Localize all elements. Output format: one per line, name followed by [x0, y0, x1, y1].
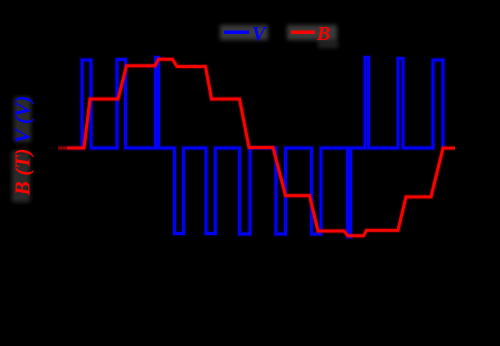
svg-text:B: B: [316, 23, 330, 45]
legend V sample line: [224, 30, 249, 34]
V curve glow: [58, 58, 443, 238]
svg-text:V: V: [252, 23, 267, 45]
legend B sample line: [291, 30, 315, 34]
B curve (red staircase): [58, 59, 455, 236]
svg-text:V (V): V (V): [11, 96, 35, 144]
faded start of red baseline: [54, 143, 67, 153]
jpeg artifact patch behind y labels: [12, 97, 31, 202]
jpeg artifact patch behind legend: [220, 25, 338, 48]
svg-text:B (T): B (T): [11, 148, 35, 196]
B curve glow: [58, 59, 455, 236]
V curve (blue square wave): [58, 58, 443, 238]
